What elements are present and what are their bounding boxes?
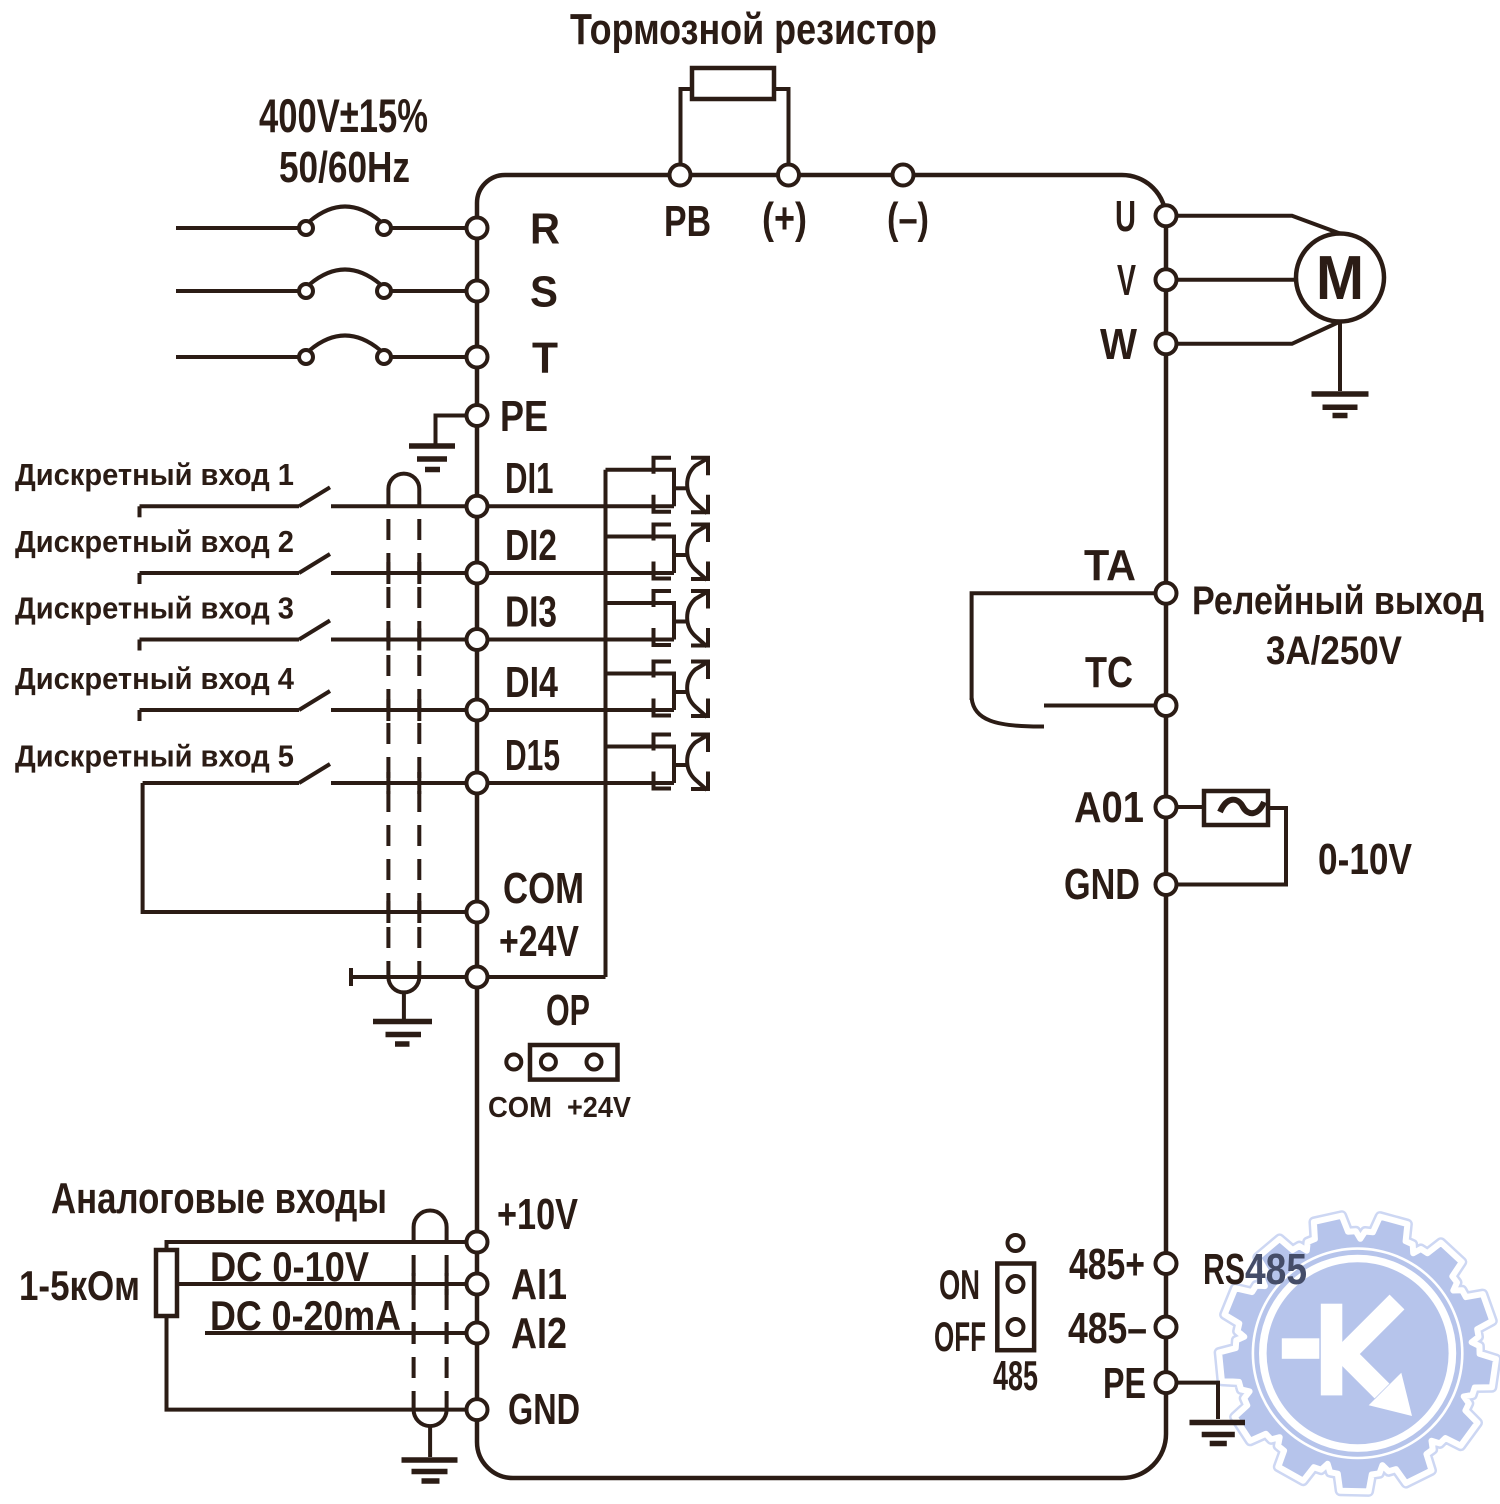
terminal 485- (1156, 1317, 1177, 1338)
svg-text:+24V: +24V (567, 1092, 632, 1124)
terminal +10V (467, 1232, 488, 1253)
switch discrete input 3 (140, 638, 300, 642)
svg-text:Дискретный вход 1: Дискретный вход 1 (15, 457, 294, 492)
wire TA relay (972, 593, 1166, 700)
wire phase R input (176, 226, 298, 230)
wire resistor left leg (681, 89, 693, 175)
ground PE right (1190, 1423, 1246, 1444)
svg-text:485–: 485– (1068, 1304, 1147, 1353)
wire AO1 loop to GND (1166, 808, 1286, 885)
svg-text:Тормозной резистор: Тормозной резистор (570, 5, 937, 54)
svg-text:M: M (1316, 244, 1364, 313)
relay moving contact (972, 698, 1044, 727)
wire AI1 (177, 1282, 477, 1286)
voltmeter box ~ (1204, 791, 1268, 825)
wire resistor right leg (774, 89, 789, 175)
wire PE to ground (436, 416, 471, 444)
terminal S (467, 281, 488, 302)
terminal DI4 (467, 700, 488, 721)
terminal 485+ (1156, 1253, 1177, 1274)
wire +10V (167, 1242, 478, 1250)
svg-text:400V±15%: 400V±15% (259, 89, 428, 142)
switch discrete input 2 (140, 571, 300, 575)
svg-text:1-5кОм: 1-5кОм (19, 1262, 140, 1309)
wire phase S input (176, 289, 298, 293)
svg-text:(–): (–) (887, 194, 929, 243)
svg-text:DI3: DI3 (505, 588, 557, 637)
svg-text:Дискретный вход 3: Дискретный вход 3 (15, 591, 294, 626)
svg-text:DI1: DI1 (505, 454, 554, 503)
DIP switch 485 termination (997, 1264, 1034, 1351)
svg-text:(+): (+) (762, 194, 807, 243)
terminal PE right (1156, 1372, 1177, 1393)
shield analog cable (414, 1211, 447, 1244)
optocoupler DI1 (477, 458, 708, 514)
terminal V (1156, 269, 1177, 290)
svg-text:R: R (530, 205, 560, 254)
terminal GND right (1156, 874, 1177, 895)
switch discrete input 1 (140, 504, 300, 508)
potentiometer 1-5kOm (156, 1250, 177, 1316)
wire U to motor (1166, 216, 1340, 234)
terminal COM (467, 902, 488, 923)
wire +24V lead (351, 975, 477, 979)
svg-text:V: V (1117, 256, 1136, 305)
svg-text:50/60Hz: 50/60Hz (279, 143, 410, 192)
svg-text:PE: PE (1103, 1359, 1146, 1408)
svg-text:S: S (530, 268, 558, 317)
breaker contact R (299, 221, 313, 235)
svg-text:А01: А01 (1074, 783, 1144, 832)
wire AO1 (1166, 805, 1204, 809)
terminal PE (467, 405, 488, 426)
svg-text:COM: COM (503, 864, 584, 913)
svg-text:PE: PE (500, 392, 548, 441)
terminal PB (670, 165, 691, 186)
svg-text:TA: TA (1084, 541, 1136, 590)
terminal AI2 (467, 1323, 488, 1344)
svg-text:Аналоговые входы: Аналоговые входы (51, 1174, 387, 1223)
wire V to motor (1166, 278, 1296, 282)
svg-text:AI2: AI2 (511, 1309, 567, 1358)
svg-text:RS485: RS485 (1203, 1245, 1307, 1294)
svg-text:COM: COM (488, 1092, 552, 1124)
svg-text:485+: 485+ (1069, 1240, 1145, 1289)
switch discrete input 5 (143, 781, 299, 785)
terminal U (1156, 205, 1177, 226)
wire PE right to ground (1166, 1383, 1218, 1419)
ground digital shield (373, 1022, 432, 1045)
svg-text:Дискретный вход 5: Дискретный вход 5 (15, 739, 294, 774)
terminal TA (1156, 583, 1177, 604)
terminal DI1 (467, 496, 488, 517)
optocoupler DI3 (477, 591, 708, 647)
svg-text:OFF: OFF (934, 1313, 986, 1360)
svg-text:DC 0-20mA: DC 0-20mA (210, 1292, 401, 1339)
wire W to motor (1166, 322, 1340, 344)
motor M circle (1296, 234, 1384, 322)
watermark gear logo (1219, 1216, 1496, 1492)
svg-text:DC 0-10V: DC 0-10V (210, 1243, 369, 1290)
terminal TC (1156, 695, 1177, 716)
terminal +24V (467, 967, 488, 988)
wire phase T input (176, 355, 298, 359)
terminal (+) (778, 165, 799, 186)
svg-text:+24V: +24V (499, 917, 580, 966)
svg-text:GND: GND (508, 1385, 580, 1434)
terminal GND (467, 1399, 488, 1420)
terminal T (467, 347, 488, 368)
terminal R (467, 218, 488, 239)
svg-text:T: T (532, 334, 558, 383)
shield digital inputs cable (388, 474, 419, 507)
svg-text:U: U (1115, 192, 1136, 241)
svg-text:DI2: DI2 (505, 521, 557, 570)
braking resistor (692, 68, 774, 99)
wire DI5 loop to COM (143, 783, 477, 912)
wire AI2 (205, 1331, 477, 1335)
terminal AI1 (467, 1274, 488, 1295)
switch discrete input 4 (140, 708, 300, 712)
svg-text:PB: PB (664, 197, 711, 246)
svg-text:TC: TC (1085, 648, 1133, 697)
shield bottom cap + ground (388, 977, 419, 992)
svg-text:485: 485 (993, 1352, 1038, 1399)
svg-text:Дискретный вход 2: Дискретный вход 2 (15, 524, 294, 559)
wire TC relay (1044, 704, 1166, 708)
breaker contact S (299, 284, 313, 298)
terminal DI3 (467, 629, 488, 650)
svg-text:DI4: DI4 (505, 658, 558, 707)
svg-text:Дискретный вход 4: Дискретный вход 4 (15, 661, 295, 696)
terminal W (1156, 333, 1177, 354)
svg-text:AI1: AI1 (511, 1260, 567, 1309)
terminal AO1 (1156, 797, 1177, 818)
terminal DI2 (467, 563, 488, 584)
optocoupler DI2 (477, 525, 708, 581)
svg-text:OP: OP (546, 986, 590, 1035)
optocoupler DI4 (477, 662, 708, 718)
wire pot to GND (167, 1316, 478, 1410)
svg-text:Релейный выход: Релейный выход (1192, 579, 1484, 623)
svg-text:0-10V: 0-10V (1318, 835, 1413, 884)
optocoupler DI5 (477, 735, 708, 791)
ground analog shield (402, 1460, 458, 1481)
svg-text:3А/250V: 3А/250V (1266, 629, 1402, 673)
svg-text:D15: D15 (505, 731, 560, 780)
ground PE input (409, 446, 455, 470)
terminal DI5 (467, 773, 488, 794)
jumper OP block (530, 1045, 618, 1080)
wire +24V bus (477, 470, 606, 977)
breaker contact T (299, 350, 313, 364)
wire motor to ground (1338, 322, 1342, 392)
inverter box outline (477, 175, 1166, 1478)
svg-text:+10V: +10V (497, 1190, 579, 1239)
ground motor (1312, 394, 1369, 416)
svg-text:GND: GND (1064, 860, 1140, 909)
terminal (-) (893, 165, 914, 186)
svg-text:ON: ON (939, 1261, 980, 1308)
svg-text:W: W (1100, 320, 1137, 369)
